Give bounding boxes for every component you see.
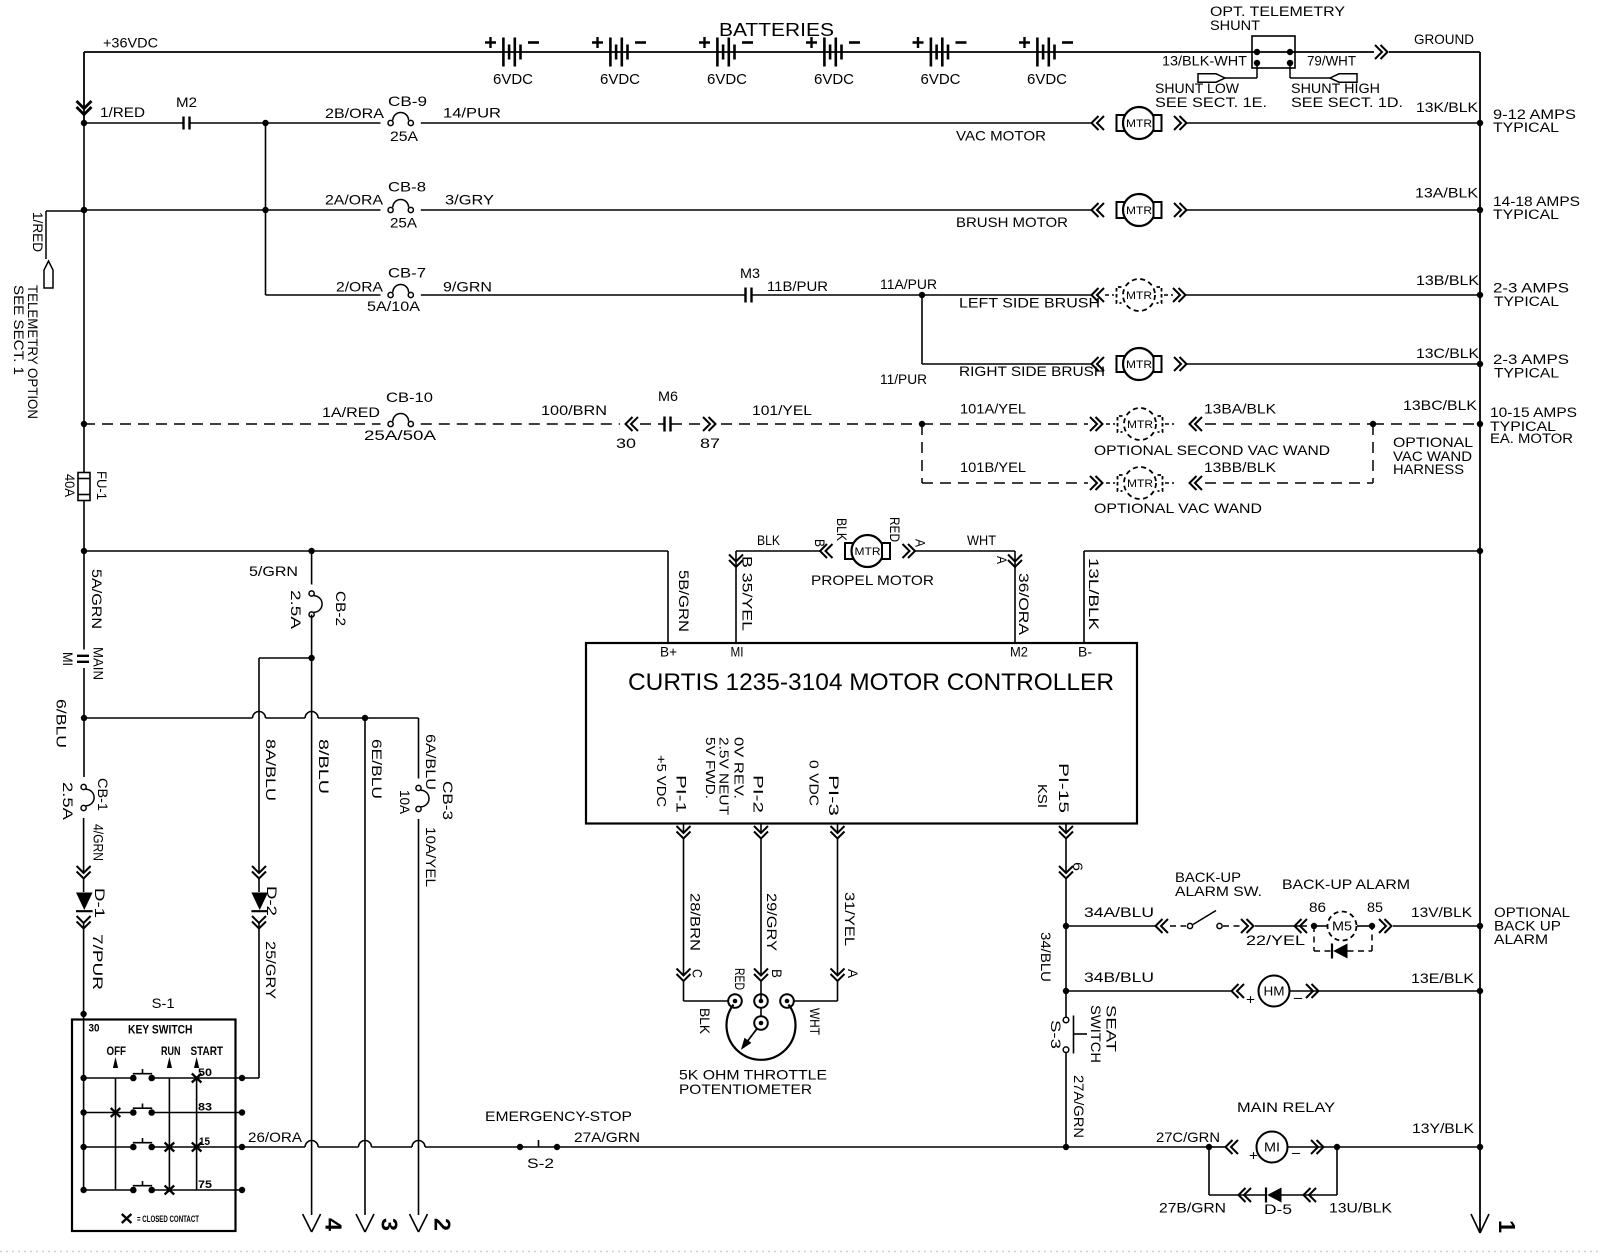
svg-text:SEE SECT. 1E.: SEE SECT. 1E. <box>1155 94 1267 110</box>
wire branch 265 <box>265 123 267 295</box>
svg-text:S-1: S-1 <box>152 995 175 1011</box>
svg-text:6VDC: 6VDC <box>814 71 854 88</box>
svg-text:13/BLK-WHT: 13/BLK-WHT <box>1162 53 1247 69</box>
svg-text:10A: 10A <box>397 790 413 815</box>
wire row1 to breaker <box>266 122 381 124</box>
svg-text:34A/BLU: 34A/BLU <box>1084 904 1154 920</box>
svg-text:MI: MI <box>731 644 744 660</box>
wire relay right lead <box>1288 1146 1337 1148</box>
svg-text:27A/GRN: 27A/GRN <box>574 1129 640 1145</box>
wire hop 1147 a <box>305 1141 318 1148</box>
connector chevron wand1 left <box>1090 417 1103 431</box>
svg-text:SWITCH: SWITCH <box>1088 1005 1104 1063</box>
wire left rail r1-r2 <box>83 123 85 210</box>
svg-text:TYPICAL: TYPICAL <box>1494 366 1560 381</box>
wire KSI 926-991 <box>1065 926 1067 991</box>
svg-text:5A/10A: 5A/10A <box>367 298 421 314</box>
wire +36VDC top rail <box>84 51 1374 53</box>
wire row 1147 key to S2 <box>242 1146 305 1148</box>
breaker CB-7 <box>388 292 393 297</box>
node junction 86 <box>1311 923 1317 929</box>
potentiometer R1 5K throttle <box>728 994 742 1008</box>
wire left +36VDC rail <box>83 52 85 123</box>
wire pot C lead <box>683 968 685 976</box>
connector pennant shunt high <box>1330 74 1357 82</box>
wire 1147 to relay <box>1066 1146 1209 1148</box>
svg-text:1: 1 <box>1494 1220 1520 1233</box>
svg-text:11B/PUR: 11B/PUR <box>767 278 828 294</box>
svg-text:2A/ORA: 2A/ORA <box>325 192 384 208</box>
wire 25/GRY <box>258 879 260 892</box>
svg-text:13A/BLK: 13A/BLK <box>1415 185 1479 201</box>
connector page arrow 1 <box>1471 1214 1489 1233</box>
wire jog 658 <box>259 657 312 659</box>
node junction row3 <box>919 292 925 298</box>
connector chevron M2 drop <box>1008 555 1022 568</box>
wire dashed row to wand1 <box>922 423 1088 425</box>
wire rail MAIN-718 <box>83 668 85 718</box>
svg-text:3: 3 <box>377 1218 403 1231</box>
svg-text:A: A <box>994 556 1010 565</box>
node X row50 START <box>192 1074 202 1083</box>
relay contact M2 <box>182 117 184 130</box>
battery B5 6VDC <box>930 38 933 67</box>
svg-text:87: 87 <box>700 435 720 451</box>
shunt box <box>1252 36 1295 68</box>
wire dashed row2 left <box>922 482 1088 484</box>
motor M VAC <box>1092 116 1105 130</box>
node junction relay right <box>1334 1144 1340 1150</box>
node X row75 RUN <box>165 1186 175 1195</box>
diode D-2 <box>251 893 268 911</box>
wire dashed branch 1373 <box>1372 424 1374 483</box>
wire 8/BLU down <box>311 658 313 1215</box>
node key rail dots <box>80 1075 86 1081</box>
battery B6 6VDC <box>1036 38 1039 67</box>
wire hop 718 b <box>305 712 318 719</box>
wire M5 to 85 <box>1357 925 1372 927</box>
wire KSI stub <box>1065 824 1067 834</box>
svg-text:2: 2 <box>430 1218 456 1231</box>
svg-text:1A/RED: 1A/RED <box>322 404 380 420</box>
svg-text:POTENTIOMETER: POTENTIOMETER <box>679 1081 812 1097</box>
svg-text:RUN: RUN <box>161 1046 181 1058</box>
wire 6E/BLU down <box>364 718 366 1215</box>
node junction 926 bus <box>1477 923 1483 929</box>
svg-text:3/GRY: 3/GRY <box>445 192 495 208</box>
svg-text:FU-1: FU-1 <box>94 471 110 500</box>
connector chevron D5 left <box>1239 1188 1252 1202</box>
switch contact row50 <box>130 1075 137 1082</box>
wire row3 M3 to junction <box>752 294 922 296</box>
svg-text:PI-2: PI-2 <box>751 775 767 813</box>
wire dashed m6 left <box>640 423 664 425</box>
wire 8A/BLU down <box>258 658 260 873</box>
svg-text:6: 6 <box>1070 862 1086 871</box>
svg-text:B+: B+ <box>660 644 677 660</box>
relay contact M3 <box>744 288 746 303</box>
svg-text:KEY SWITCH: KEY SWITCH <box>128 1025 193 1037</box>
svg-text:B: B <box>769 969 785 978</box>
wire CB-2 upper <box>311 551 313 585</box>
svg-text:CB-8: CB-8 <box>388 179 426 195</box>
wire key col START <box>196 1078 198 1190</box>
svg-text:6VDC: 6VDC <box>1027 71 1067 88</box>
svg-text:M2: M2 <box>176 94 197 110</box>
svg-text:KSI: KSI <box>1035 784 1050 808</box>
relay contact M6 <box>663 417 665 432</box>
wire dashed branch 922 <box>921 424 923 483</box>
svg-text:1/RED: 1/RED <box>100 104 145 120</box>
connector pennant shunt low <box>1198 74 1225 82</box>
svg-text:D-2: D-2 <box>264 886 280 916</box>
svg-text:83: 83 <box>198 1102 212 1114</box>
switch S-3 seat switch <box>1063 1017 1069 1023</box>
diode D-1 <box>76 893 93 911</box>
svg-text:11/PUR: 11/PUR <box>880 371 927 387</box>
wire 10A/YEL down <box>418 819 420 1215</box>
svg-text:6VDC: 6VDC <box>600 71 640 88</box>
node junction row2 bus <box>1477 207 1483 213</box>
switch S-4 backup alarm sw <box>1187 923 1192 928</box>
connector chevron wand2 right <box>1190 476 1203 490</box>
svg-text:13B/BLK: 13B/BLK <box>1416 272 1480 288</box>
breaker CB-10 <box>388 421 393 426</box>
motor M RIGHT SIDE BRUSH <box>1092 357 1105 371</box>
wire 86 to M5 <box>1314 925 1327 927</box>
svg-text:75: 75 <box>198 1179 212 1191</box>
node junction rail row1 <box>81 120 87 126</box>
breaker CB-1 <box>81 784 86 789</box>
svg-text:= CLOSED CONTACT: = CLOSED CONTACT <box>137 1214 199 1225</box>
node junction 85 <box>1369 923 1375 929</box>
node junction dashed bus <box>1477 421 1483 427</box>
diode D-4 bypass dashed <box>1313 926 1315 951</box>
svg-text:8A/BLU: 8A/BLU <box>263 739 279 801</box>
svg-text:RED: RED <box>732 968 748 990</box>
wire P1-1 stub <box>683 824 685 834</box>
connector chevron 30 <box>626 417 639 431</box>
node junction 7/PUR <box>80 1011 86 1017</box>
wire dashed row mid <box>421 423 620 425</box>
svg-text:BLK: BLK <box>697 1008 713 1035</box>
svg-text:HM: HM <box>1264 984 1285 999</box>
svg-text:34/BLU: 34/BLU <box>1038 932 1054 982</box>
svg-text:13U/BLK: 13U/BLK <box>1329 1200 1393 1216</box>
svg-text:27A/GRN: 27A/GRN <box>1071 1075 1087 1138</box>
motor M LEFT SIDE BRUSH dashed <box>1105 294 1114 296</box>
svg-text:CB-2: CB-2 <box>333 591 349 626</box>
node junction 551 bus <box>1477 548 1483 554</box>
wire left rail dashed-fuse <box>83 424 85 472</box>
wire key row 75 <box>84 1189 131 1191</box>
svg-text:15: 15 <box>199 1136 210 1148</box>
switch S-2 emergency stop <box>517 1144 523 1150</box>
wire row3 left <box>266 294 381 296</box>
svg-text:TYPICAL: TYPICAL <box>1493 120 1560 135</box>
wire key row 50 <box>84 1077 131 1079</box>
connector chevron D-1 bottom <box>77 916 91 929</box>
svg-text:EMERGENCY-STOP: EMERGENCY-STOP <box>485 1108 632 1124</box>
wire alarm sw dashes right <box>1223 925 1240 927</box>
svg-text:13V/BLK: 13V/BLK <box>1411 904 1473 920</box>
wire hop 718 a <box>253 712 266 719</box>
svg-text:OPTIONAL SECOND VAC WAND: OPTIONAL SECOND VAC WAND <box>1094 442 1330 458</box>
node X row15 START <box>192 1143 202 1152</box>
connector chevron D5 right <box>1304 1188 1317 1202</box>
node junction row1 <box>262 120 268 126</box>
svg-text:25A: 25A <box>390 128 419 144</box>
wire left rail fuse-row551 <box>83 501 85 552</box>
connector chevron KSI 1 <box>1059 826 1073 839</box>
switch contact row83 <box>130 1109 137 1116</box>
wire dashed wand2 right <box>1205 482 1373 484</box>
svg-text:27C/GRN: 27C/GRN <box>1156 1129 1220 1145</box>
svg-text:10-15 AMPS: 10-15 AMPS <box>1490 405 1577 420</box>
wire P1-2 stub <box>760 824 762 834</box>
svg-text:4/GRN: 4/GRN <box>91 824 107 861</box>
svg-text:13E/BLK: 13E/BLK <box>1411 970 1475 986</box>
wire shunt high stub <box>1289 63 1291 78</box>
connector chevron P1-3 <box>831 826 845 839</box>
svg-text:25/GRY: 25/GRY <box>263 941 279 1000</box>
svg-text:C: C <box>690 969 706 978</box>
svg-text:CB-3: CB-3 <box>440 781 456 820</box>
node junction relay left <box>1206 1144 1212 1150</box>
svg-text:1/RED: 1/RED <box>30 212 46 252</box>
connector chevron wand2 left <box>1090 476 1103 490</box>
svg-text:25A: 25A <box>390 215 418 231</box>
connector chevron M5 left <box>1295 919 1308 933</box>
svg-text:101A/YEL: 101A/YEL <box>960 401 1026 417</box>
motor M optional second vac wand dashed <box>1106 423 1115 425</box>
svg-text:2.5A: 2.5A <box>60 782 76 821</box>
wire rail CB1-chev <box>83 818 85 873</box>
svg-text:101B/YEL: 101B/YEL <box>960 459 1026 475</box>
breaker CB-2 <box>309 591 314 596</box>
wire row4 <box>922 363 1092 365</box>
svg-text:31/YEL: 31/YEL <box>842 892 858 946</box>
wire 34A solid <box>1066 925 1155 927</box>
svg-text:25A/50A: 25A/50A <box>364 427 437 443</box>
wire dashed 1373 to bus <box>1373 423 1480 425</box>
wire dashed row to junction <box>721 423 922 425</box>
connector chevron left rail <box>77 101 92 115</box>
node junction 658 <box>308 655 314 661</box>
svg-text:M3: M3 <box>740 265 760 281</box>
svg-text:13K/BLK: 13K/BLK <box>1416 99 1479 115</box>
battery B4 6VDC <box>823 38 826 67</box>
connector chevron P1-1 <box>677 826 691 839</box>
svg-text:A: A <box>913 539 929 548</box>
wire row3 to motor <box>922 294 1092 296</box>
connector chevron M5 right <box>1379 919 1392 933</box>
wire CB-2 lower <box>311 615 313 659</box>
node junction row2 rail <box>81 207 87 213</box>
connector chevron D-2 bottom <box>252 916 266 929</box>
connector chevron alarm sw right <box>1241 919 1254 933</box>
svg-text:5V FWD.: 5V FWD. <box>703 737 718 799</box>
svg-text:D-5: D-5 <box>1264 1201 1292 1217</box>
relay contact M1 MAIN <box>77 655 89 657</box>
wire row3 breaker to M3 <box>421 294 746 296</box>
svg-text:VAC MOTOR: VAC MOTOR <box>956 128 1046 144</box>
wire rail 718-CB1 <box>83 718 85 777</box>
node junction row3 bus <box>1477 292 1483 298</box>
connector chevron KSI 6 <box>1059 866 1073 879</box>
svg-text:CB-10: CB-10 <box>386 389 433 405</box>
svg-text:S-3: S-3 <box>1048 1020 1064 1049</box>
wire 27A/GRN <box>1065 1053 1067 1148</box>
wire row 718 <box>84 717 253 719</box>
svg-text:4: 4 <box>321 1218 347 1231</box>
svg-text:TYPICAL: TYPICAL <box>1493 207 1560 222</box>
svg-text:10A/YEL: 10A/YEL <box>423 827 439 887</box>
svg-text:101/YEL: 101/YEL <box>752 402 812 418</box>
connector chevron ground rail <box>1375 45 1388 59</box>
connector chevron pot A <box>831 969 845 982</box>
breaker CB-9 <box>388 120 393 125</box>
svg-text:6A/BLU: 6A/BLU <box>423 734 439 790</box>
node junction rail 718 <box>81 715 87 721</box>
connector chevron relay left <box>1226 1140 1239 1154</box>
switch S-1 key switch box <box>72 1020 236 1232</box>
breaker CB-3 <box>416 785 421 790</box>
svg-text:B-: B- <box>1078 644 1092 660</box>
connector chevron 87 <box>703 417 716 431</box>
svg-text:34B/BLU: 34B/BLU <box>1084 969 1154 985</box>
svg-text:MTR: MTR <box>1127 419 1153 431</box>
wire 991 to S-3 <box>1065 991 1067 1017</box>
svg-text:13BC/BLK: 13BC/BLK <box>1403 397 1478 413</box>
wire key row 83 <box>84 1112 131 1114</box>
hourmeter HM <box>1259 976 1290 1007</box>
svg-text:SHUNT: SHUNT <box>1210 18 1260 33</box>
node junction 5/GRN <box>308 548 314 554</box>
wire B+ drop <box>667 551 669 643</box>
node junction row2 265 <box>262 207 268 213</box>
connector chevron HM right <box>1306 984 1319 998</box>
svg-text:MAIN: MAIN <box>91 647 107 680</box>
wire relay left lead <box>1209 1146 1225 1148</box>
connector chevron alarm sw left <box>1156 919 1169 933</box>
svg-text:MTR: MTR <box>1126 359 1152 371</box>
node junction dashed 1373 <box>1370 421 1376 427</box>
controller U1 CURTIS box <box>586 643 1137 824</box>
node key terminal dots <box>239 1075 245 1081</box>
wire pot A lead <box>837 968 839 976</box>
svg-text:BLK: BLK <box>834 518 850 542</box>
svg-text:5/GRN: 5/GRN <box>249 563 298 579</box>
svg-text:86: 86 <box>1309 899 1326 915</box>
svg-text:M6: M6 <box>658 388 678 404</box>
wire rail 551-MAIN <box>83 551 85 650</box>
relay coil M1 main relay <box>1257 1132 1288 1163</box>
node RUN arrow <box>167 1057 172 1068</box>
motor M optional vac wand dashed <box>1106 482 1115 484</box>
svg-text:13BA/BLK: 13BA/BLK <box>1204 401 1277 417</box>
svg-text:WHT: WHT <box>967 532 996 548</box>
wire right ground bus <box>1479 52 1481 1233</box>
svg-text:85: 85 <box>1367 899 1383 915</box>
diode D-5 <box>1267 1188 1281 1203</box>
node X row83 OFF <box>111 1108 121 1117</box>
node junction 718 6E <box>362 715 368 721</box>
svg-text:BLK: BLK <box>757 532 781 548</box>
svg-text:30: 30 <box>616 435 636 451</box>
svg-text:+36VDC: +36VDC <box>103 35 158 51</box>
svg-text:26/ORA: 26/ORA <box>248 1129 303 1145</box>
node junction row4 bus <box>1477 361 1483 367</box>
wire dashed wand1 to 1373 <box>1205 423 1373 425</box>
battery B1 6VDC <box>502 38 505 67</box>
svg-text:PI-3: PI-3 <box>826 775 842 816</box>
wire shunt low stub <box>1256 63 1258 78</box>
svg-text:0V REV.: 0V REV. <box>732 737 747 799</box>
node junction 1147 1066 <box>1063 1144 1069 1150</box>
svg-text:PROPEL MOTOR: PROPEL MOTOR <box>811 572 934 588</box>
connector page arrow 3 <box>356 1214 374 1232</box>
wire B- up <box>1083 551 1085 643</box>
node junction rail 551 <box>81 548 87 554</box>
svg-text:2/ORA: 2/ORA <box>336 279 384 295</box>
wire 25/GRY to key <box>242 1077 259 1079</box>
svg-text:CB-1: CB-1 <box>95 778 111 811</box>
node X row15 RUN <box>165 1143 175 1152</box>
wire M2 wht <box>915 550 1016 552</box>
wire 34B to HM <box>1066 990 1231 992</box>
svg-text:OFF: OFF <box>107 1046 127 1058</box>
wire P1-3 stub <box>837 824 839 834</box>
svg-text:30: 30 <box>89 1023 100 1035</box>
svg-text:22/YEL: 22/YEL <box>1246 932 1305 948</box>
svg-text:START: START <box>191 1046 224 1058</box>
svg-text:LEFT SIDE BRUSH: LEFT SIDE BRUSH <box>959 295 1100 311</box>
svg-text:ALARM SW.: ALARM SW. <box>1175 883 1262 899</box>
wire M1 drop <box>735 551 737 643</box>
node junction 991 bus <box>1477 988 1483 994</box>
motor M propel <box>820 544 833 558</box>
svg-text:OPTIONAL VAC WAND: OPTIONAL VAC WAND <box>1094 500 1262 516</box>
wire to M5 <box>1255 925 1307 927</box>
wire key col RUN <box>168 1078 170 1190</box>
svg-text:SEE SECT. 1D.: SEE SECT. 1D. <box>1291 94 1403 110</box>
connector pennant 1/RED <box>44 261 53 288</box>
svg-text:5A/GRN: 5A/GRN <box>89 569 105 629</box>
wire B- to bus <box>1084 550 1480 552</box>
svg-text:MI: MI <box>1264 1140 1280 1155</box>
breaker CB-8 <box>388 207 393 212</box>
wire 6A/BLU drop <box>418 718 420 779</box>
svg-text:B 35/YEL: B 35/YEL <box>740 556 756 631</box>
svg-text:MTR: MTR <box>1126 118 1152 130</box>
svg-text:SEAT: SEAT <box>1104 1005 1120 1053</box>
wire row1 breaker to motor <box>421 122 1092 124</box>
motor M BRUSH <box>1092 203 1105 217</box>
wire key col OFF <box>115 1078 117 1190</box>
wire key rail <box>83 1020 85 1191</box>
node X = CLOSED CONTACT label <box>122 1214 132 1223</box>
svg-text:29/GRY: 29/GRY <box>764 893 780 952</box>
wire M1 blk <box>736 550 820 552</box>
svg-text:WHT: WHT <box>807 1008 823 1035</box>
svg-text:5B/GRN: 5B/GRN <box>676 570 692 632</box>
svg-text:6VDC: 6VDC <box>493 71 533 88</box>
wire pot B lead <box>760 968 762 976</box>
svg-text:EA. MOTOR: EA. MOTOR <box>1490 431 1573 446</box>
switch contact row15 <box>130 1144 137 1151</box>
svg-text:6VDC: 6VDC <box>921 71 961 88</box>
